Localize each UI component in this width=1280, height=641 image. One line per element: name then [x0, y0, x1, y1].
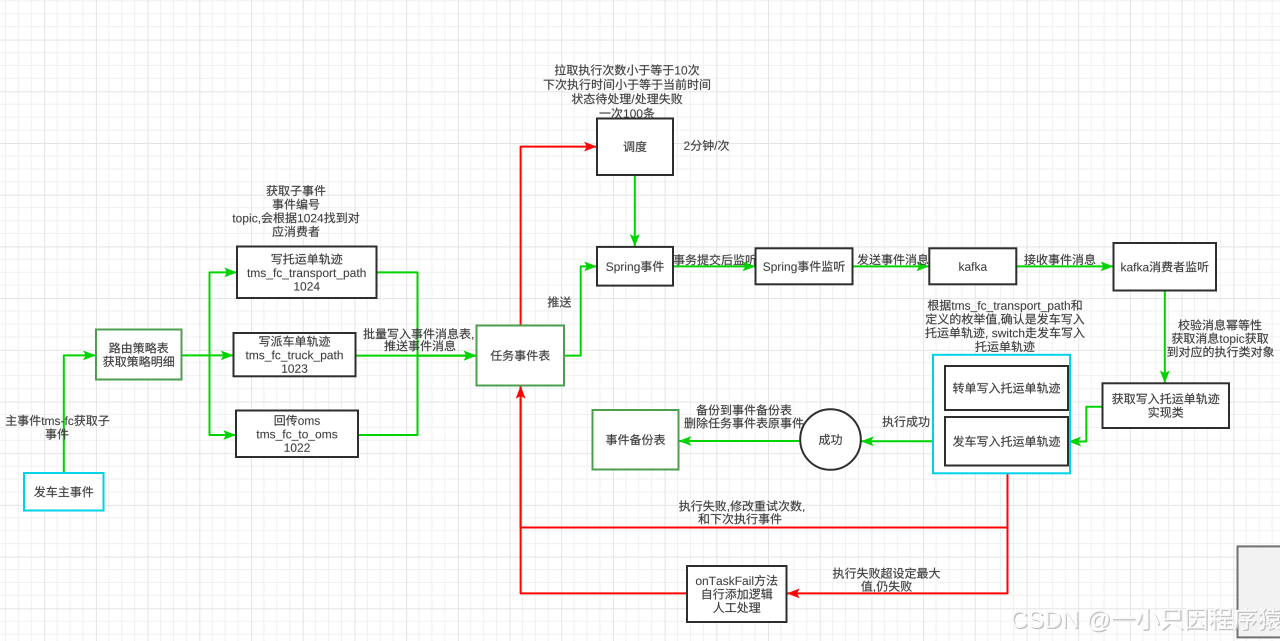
- label backup note: [684, 404, 803, 428]
- label get sub-event note: [232, 185, 359, 237]
- box onTaskFail-method: [687, 566, 787, 622]
- wire kafka to kafka-consumer: [1016, 265, 1113, 267]
- box event-backup-table: [593, 410, 679, 470]
- wire truck-path to task-event-table: [356, 355, 477, 357]
- wire branch to oms: [210, 355, 236, 435]
- box spring-event: [597, 247, 673, 286]
- container write-track group: [933, 355, 1070, 474]
- wire red retry to task-event-table: [521, 386, 1008, 527]
- box oms-1022: [236, 411, 358, 458]
- box write-truck-path-1023: [234, 333, 356, 376]
- label scheduler conditions: [544, 64, 710, 118]
- label enum note: [925, 300, 1084, 352]
- wire kafka-consumer to impl-class: [1164, 291, 1166, 383]
- wire main-event to route-table: [64, 355, 96, 473]
- wire transport-path to task-event-table: [377, 272, 477, 355]
- label main event get sub: [6, 415, 109, 440]
- box scheduler: [597, 119, 673, 176]
- box write-transport-path-1024: [237, 247, 377, 299]
- label exec success: [882, 416, 929, 427]
- wire success to backup-table: [679, 440, 800, 442]
- wire route-table to truck-path: [182, 354, 234, 356]
- panel outline preview: [1238, 546, 1280, 637]
- box route-policy-table: [96, 330, 182, 380]
- wire spring-event to spring-listener: [673, 265, 755, 267]
- wire scheduler to spring-event: [634, 175, 636, 246]
- box task-event-table: [477, 326, 565, 386]
- box depart-write-track: [945, 417, 1068, 466]
- wire spring-listener to kafka: [853, 265, 930, 267]
- watermark CSDN: [1011, 607, 1280, 632]
- wire oms to task-event-table: [358, 356, 476, 435]
- label push: [548, 296, 571, 307]
- wire branch to transport-path: [210, 272, 237, 355]
- box transfer-write-track: [945, 366, 1068, 410]
- box kafka: [929, 248, 1016, 284]
- wire depart-write to success: [861, 440, 945, 442]
- node success circle: [800, 409, 861, 470]
- box get-write-impl-class: [1103, 383, 1230, 428]
- wire impl-class to depart-write: [1069, 407, 1103, 442]
- wire task-event-table to spring-event: [564, 266, 597, 355]
- wire red onTaskFail to scheduler: [521, 147, 687, 594]
- label exec fail retry: [679, 500, 804, 524]
- label receive event message: [1024, 254, 1095, 265]
- wire red fail-max to onTaskFail: [787, 466, 1007, 594]
- box depart-main-event: [24, 473, 104, 511]
- label batch write message: [363, 328, 473, 351]
- label send event message: [857, 254, 928, 265]
- label 2min per run: [684, 140, 729, 151]
- label idempotency note: [1167, 319, 1274, 357]
- box spring-listener: [756, 248, 853, 284]
- label listen after commit: [674, 254, 757, 265]
- box kafka-consumer-listener: [1114, 243, 1217, 291]
- label fail over max: [833, 568, 940, 593]
